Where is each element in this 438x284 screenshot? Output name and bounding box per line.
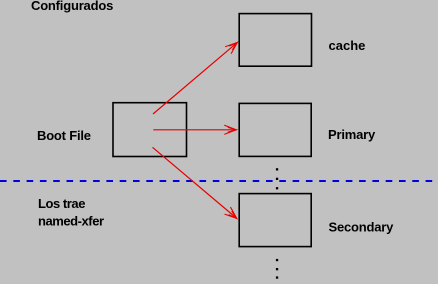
box Secondary xyxy=(239,194,311,247)
label Configurados xyxy=(31,0,113,13)
svg-text:named-xfer: named-xfer xyxy=(38,214,104,229)
label Secondary xyxy=(329,220,395,235)
arrow to Primary xyxy=(153,129,236,131)
box cache xyxy=(239,14,311,67)
label named-xfer xyxy=(38,214,104,229)
svg-text:Los trae: Los trae xyxy=(38,196,85,211)
dots between Primary and Secondary xyxy=(276,168,278,189)
svg-text:Secondary: Secondary xyxy=(329,220,395,235)
box Boot File xyxy=(113,103,187,157)
label Los trae xyxy=(38,196,85,211)
arrow to Secondary xyxy=(153,147,237,218)
arrow to cache xyxy=(153,43,237,114)
label cache xyxy=(329,38,366,53)
dashed divider line xyxy=(0,180,438,182)
svg-text:Primary: Primary xyxy=(328,127,376,142)
label Primary xyxy=(328,127,376,142)
svg-text:Configurados: Configurados xyxy=(31,0,113,13)
dots below Secondary xyxy=(276,259,278,279)
svg-text:Boot File: Boot File xyxy=(37,128,91,143)
svg-text:cache: cache xyxy=(329,38,366,53)
box Primary xyxy=(239,103,311,156)
label Boot File xyxy=(37,128,91,143)
